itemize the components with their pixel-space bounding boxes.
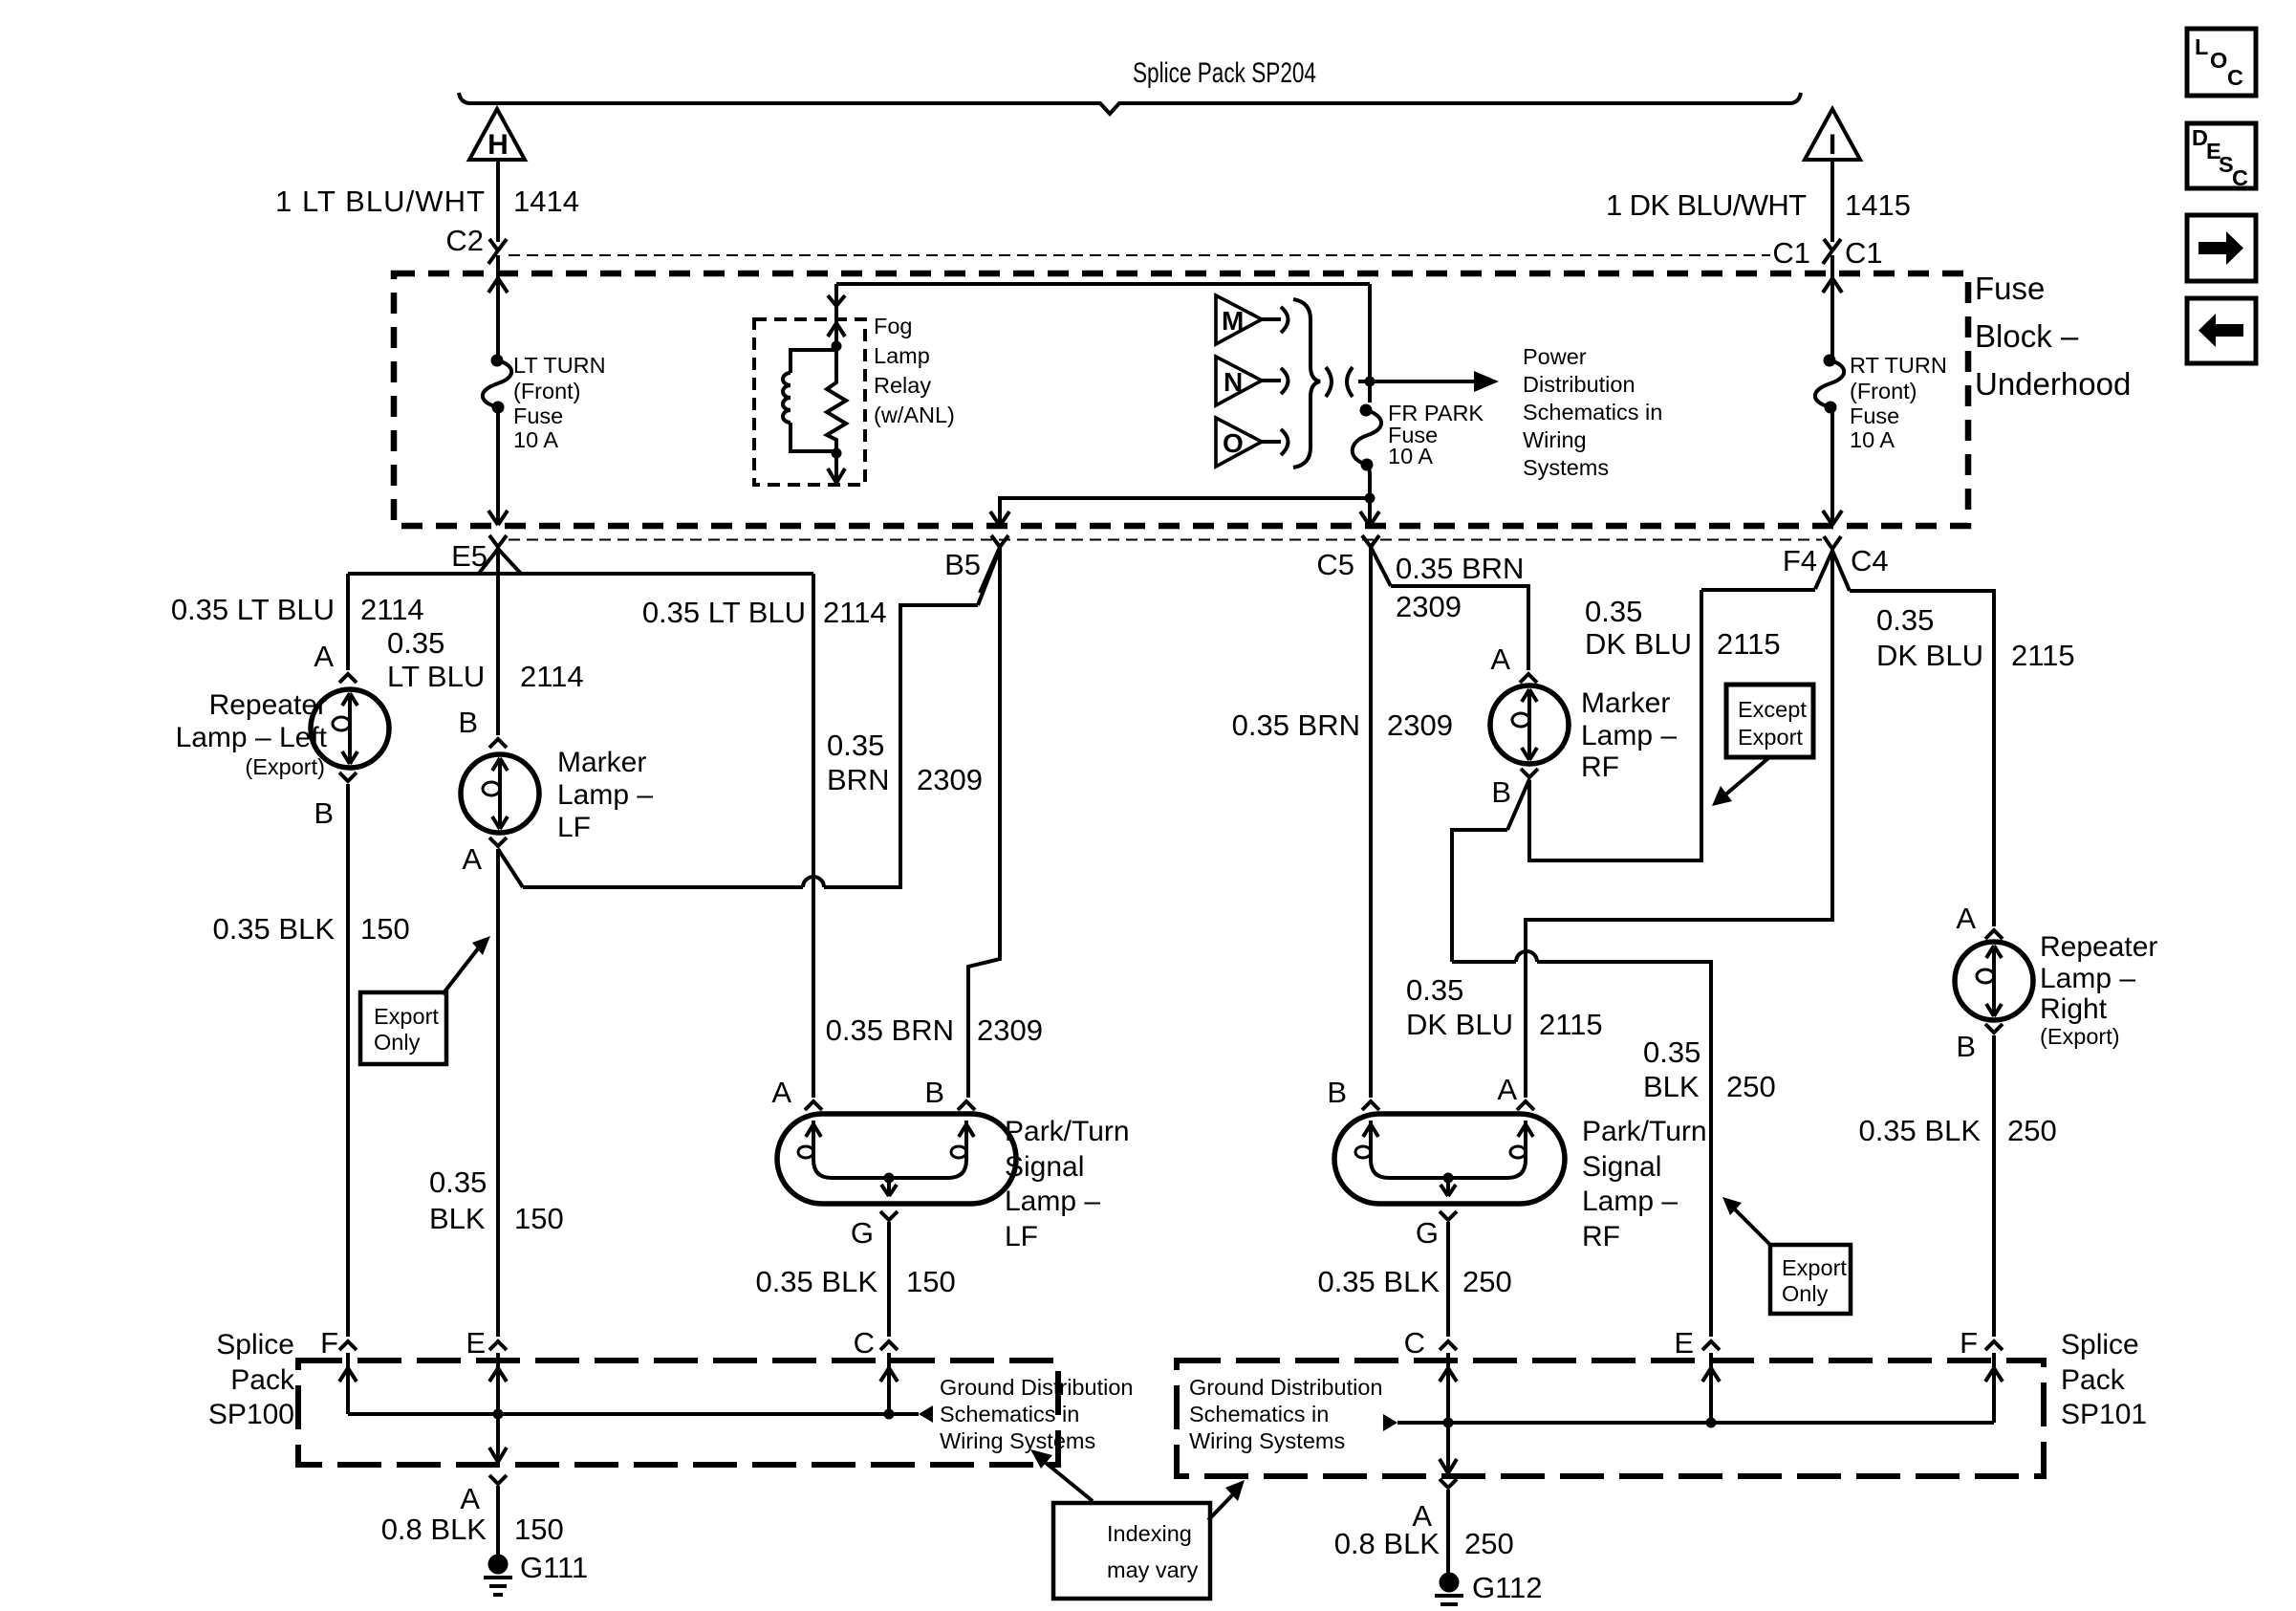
export only box left xyxy=(360,992,446,1064)
wire repeater left B to splice pack F xyxy=(346,784,350,1337)
wire I to C1 xyxy=(1830,160,1834,242)
svg-text:F: F xyxy=(1960,1326,1978,1360)
connector F4 C4 X xyxy=(1824,536,1841,549)
arrow export only right to wire xyxy=(1734,1208,1771,1246)
vertical bus from top wire to FR PARK fuse xyxy=(1368,284,1372,403)
svg-text:Lamp –: Lamp – xyxy=(557,779,653,811)
wire B5 tail xyxy=(980,547,1000,593)
svg-text:10 A: 10 A xyxy=(513,427,558,452)
arrow indexing to SP101 xyxy=(1208,1493,1234,1520)
park/turn LF inner bus xyxy=(832,1176,948,1180)
connector A X G111 lead xyxy=(489,1475,507,1484)
arrow up at fuse block top right xyxy=(1823,278,1842,293)
arrows up inside SP100 xyxy=(339,1368,898,1382)
svg-text:C: C xyxy=(2227,65,2243,90)
svg-text:(Front): (Front) xyxy=(1850,379,1917,403)
svg-text:A: A xyxy=(462,842,482,876)
svg-text:0.35 BRN: 0.35 BRN xyxy=(826,1013,954,1047)
svg-text:O: O xyxy=(1223,428,1244,458)
wire RT TURN fuse down to F4 xyxy=(1830,407,1834,525)
svg-text:B: B xyxy=(1491,775,1511,809)
connector E X splice pack SP100 xyxy=(489,1341,507,1350)
wire to G111 xyxy=(496,1486,500,1558)
except export box xyxy=(1726,685,1813,757)
wire FR PARK fuse down xyxy=(1366,465,1370,525)
svg-text:LF: LF xyxy=(557,812,591,843)
arrow indexing to SP100 xyxy=(1046,1463,1093,1501)
connector F X splice pack SP101 xyxy=(1985,1341,2003,1350)
svg-text:B: B xyxy=(1956,1030,1976,1063)
connector triangle I xyxy=(1805,109,1860,160)
svg-text:Fuse: Fuse xyxy=(1975,271,2045,306)
svg-text:Distribution: Distribution xyxy=(1523,372,1635,397)
terminal G X park/turn RF xyxy=(1440,1211,1457,1220)
svg-text:250: 250 xyxy=(1464,1527,1514,1560)
svg-text:Power: Power xyxy=(1523,344,1587,369)
svg-text:RF: RF xyxy=(1581,751,1619,783)
terminal A X park/turn RF xyxy=(1517,1101,1534,1110)
svg-text:2309: 2309 xyxy=(917,763,983,796)
terminal B X park/turn RF xyxy=(1362,1101,1379,1110)
connector B5 X xyxy=(991,535,1008,547)
svg-text:(Front): (Front) xyxy=(513,379,581,403)
arrow up into relay xyxy=(828,323,845,337)
wire marker LF A branch to B5 net xyxy=(498,549,1000,887)
svg-text:2114: 2114 xyxy=(360,593,424,626)
connector mark at relay feed xyxy=(828,295,845,306)
svg-text:0.35: 0.35 xyxy=(429,1165,487,1199)
svg-text:Underhood: Underhood xyxy=(1975,366,2131,402)
splice pack SP204 bracket xyxy=(459,93,1801,114)
svg-text:2309: 2309 xyxy=(1396,590,1462,623)
wire hop over LT BLU wire xyxy=(803,877,824,887)
svg-text:BLK: BLK xyxy=(429,1202,486,1235)
svg-text:Splice Pack SP204: Splice Pack SP204 xyxy=(1133,57,1316,89)
svg-text:B: B xyxy=(1327,1076,1347,1109)
wire C2 into fuse block xyxy=(496,255,500,360)
svg-text:2114: 2114 xyxy=(520,660,584,693)
svg-text:(Export): (Export) xyxy=(245,754,325,779)
svg-text:0.35: 0.35 xyxy=(1406,973,1463,1007)
svg-text:Fog: Fog xyxy=(874,314,913,338)
connector E5 X xyxy=(489,535,507,547)
svg-text:C1: C1 xyxy=(1845,236,1883,270)
svg-text:Pack: Pack xyxy=(230,1364,295,1396)
svg-text:RT TURN: RT TURN xyxy=(1850,353,1947,378)
arrow down at C5 exit xyxy=(1360,512,1379,526)
svg-text:L: L xyxy=(2195,34,2208,59)
svg-text:Block –: Block – xyxy=(1975,318,2079,354)
park/turn LF ground lead xyxy=(881,1178,897,1196)
wire LT TURN fuse to E5 xyxy=(496,407,500,525)
svg-text:0.8 BLK: 0.8 BLK xyxy=(1334,1527,1440,1560)
svg-text:N: N xyxy=(1224,367,1243,397)
wire E5 horizontal branch xyxy=(348,572,813,576)
svg-text:0.35: 0.35 xyxy=(827,729,884,762)
svg-text:A: A xyxy=(460,1482,480,1515)
repeater lamp right bulb xyxy=(1955,942,2033,1020)
svg-text:Right: Right xyxy=(2040,993,2108,1025)
svg-text:B: B xyxy=(924,1076,944,1109)
svg-text:LT TURN: LT TURN xyxy=(513,353,606,378)
arrow down SP101 exit xyxy=(1440,1459,1457,1473)
svg-text:2114: 2114 xyxy=(823,596,887,629)
svg-text:250: 250 xyxy=(1726,1070,1776,1103)
grouping brace xyxy=(1293,299,1320,468)
svg-text:0.35 BRN: 0.35 BRN xyxy=(1396,552,1524,585)
wire park/turn LF G to splice pack C xyxy=(887,1222,891,1337)
fuse LT TURN (Front) 10A xyxy=(491,355,504,367)
nav box arrow left xyxy=(2187,298,2256,363)
fuse FR PARK 10A xyxy=(1360,404,1373,417)
park/turn signal lamp RF housing xyxy=(1334,1114,1565,1204)
svg-text:Indexing: Indexing xyxy=(1107,1521,1192,1546)
svg-text:BLK: BLK xyxy=(1643,1070,1700,1103)
svg-text:F4: F4 xyxy=(1783,544,1817,577)
svg-text:Relay: Relay xyxy=(874,373,931,398)
svg-text:B: B xyxy=(314,796,334,830)
svg-text:G111: G111 xyxy=(520,1551,588,1584)
svg-text:I: I xyxy=(1829,129,1836,161)
terminal G X park/turn LF xyxy=(880,1211,898,1220)
svg-text:Schematics in: Schematics in xyxy=(1523,400,1662,425)
wire marker RF B export branch xyxy=(1452,779,1711,1337)
svg-text:Wiring: Wiring xyxy=(1523,427,1587,452)
svg-text:Schematics in: Schematics in xyxy=(1189,1402,1329,1426)
svg-text:C: C xyxy=(2232,165,2248,190)
svg-text:Export: Export xyxy=(374,1004,439,1029)
svg-text:Lamp – Left: Lamp – Left xyxy=(176,722,328,753)
connector cavity triangle O xyxy=(1216,418,1262,467)
svg-text:Systems: Systems xyxy=(1523,455,1609,480)
svg-text:C2: C2 xyxy=(445,224,484,257)
repeater lamp left bulb xyxy=(311,689,389,768)
svg-text:Signal: Signal xyxy=(1582,1151,1661,1183)
svg-text:BRN: BRN xyxy=(827,763,889,796)
svg-text:0.35 LT BLU: 0.35 LT BLU xyxy=(642,596,806,629)
arrow except export to wire xyxy=(1723,758,1768,796)
SP101 bus xyxy=(1397,1421,1994,1425)
park/turn RF filament A xyxy=(1507,1121,1533,1178)
svg-text:1 LT BLU/WHT: 1 LT BLU/WHT xyxy=(275,185,485,218)
park/turn LF filament B xyxy=(948,1121,974,1178)
svg-text:150: 150 xyxy=(360,912,410,946)
wire E5 down to marker lamp LF xyxy=(496,547,500,735)
svg-text:250: 250 xyxy=(2007,1114,2057,1147)
svg-text:E: E xyxy=(1674,1326,1694,1360)
svg-text:Repeater: Repeater xyxy=(209,689,327,721)
svg-text:250: 250 xyxy=(1462,1265,1512,1298)
wire C5 branch to marker RF A xyxy=(1371,547,1391,586)
svg-text:Park/Turn: Park/Turn xyxy=(1005,1116,1130,1147)
svg-text:G: G xyxy=(1416,1216,1439,1250)
svg-text:G112: G112 xyxy=(1472,1571,1543,1604)
svg-text:2309: 2309 xyxy=(1387,708,1453,742)
wire to G112 xyxy=(1446,1490,1450,1576)
terminal A X marker LF xyxy=(489,838,507,846)
svg-text:2115: 2115 xyxy=(1717,627,1781,661)
svg-text:C: C xyxy=(1404,1326,1425,1360)
wire marker LF A export ground xyxy=(496,849,500,1337)
terminal A X repeater right xyxy=(1985,930,2003,939)
connector E X splice pack SP101 xyxy=(1702,1341,1720,1350)
thin dashed connector line bottom xyxy=(509,539,1822,541)
terminal B X park/turn LF xyxy=(958,1101,975,1110)
svg-text:O: O xyxy=(2210,48,2227,73)
relay coil branch xyxy=(791,350,836,373)
marker lamp RF bulb xyxy=(1490,686,1569,764)
fog lamp relay dashed box xyxy=(754,319,865,485)
svg-text:C1: C1 xyxy=(1772,236,1810,270)
svg-text:Wiring Systems: Wiring Systems xyxy=(1189,1428,1345,1453)
ground G112 xyxy=(1440,1573,1460,1593)
svg-text:0.35: 0.35 xyxy=(1585,595,1642,628)
SP100 bus xyxy=(348,1412,919,1416)
svg-text:Schematics in: Schematics in xyxy=(940,1402,1079,1426)
junction dot to B5 branch xyxy=(1365,493,1375,504)
fuse RT TURN (Front) 10A xyxy=(1824,355,1836,367)
relay wire out bottom with arrow xyxy=(834,453,838,481)
junction dot at power takeoff xyxy=(1365,377,1375,387)
wire H to C2 xyxy=(496,160,500,242)
svg-text:0.35 BRN: 0.35 BRN xyxy=(1232,708,1360,742)
wire park/turn RF G to splice pack C xyxy=(1446,1222,1450,1337)
connector F X splice pack SP100 xyxy=(339,1341,357,1350)
wire C1 into fuse block xyxy=(1830,255,1834,360)
connector C1 X xyxy=(1823,239,1841,264)
connector C5 X xyxy=(1362,535,1379,547)
svg-text:Pack: Pack xyxy=(2061,1364,2126,1396)
svg-text:0.35 BLK: 0.35 BLK xyxy=(1317,1265,1440,1298)
arrow down at B5 exit xyxy=(990,512,1009,526)
wire repeater right B to splice pack F xyxy=(1992,1035,1996,1337)
svg-text:Signal: Signal xyxy=(1005,1151,1084,1183)
svg-text:0.8 BLK: 0.8 BLK xyxy=(381,1513,487,1546)
svg-text:A: A xyxy=(1490,642,1510,676)
svg-text:150: 150 xyxy=(514,1513,564,1546)
svg-text:DK BLU: DK BLU xyxy=(1876,639,1983,672)
arrow down SP100 exit xyxy=(489,1448,507,1462)
power distribution arrow xyxy=(1370,380,1474,383)
svg-text:SP101: SP101 xyxy=(2061,1399,2147,1430)
wire B5 down to park/turn LF B xyxy=(968,547,1000,1098)
wire left branch down to repeater lamp A xyxy=(346,574,350,670)
nav box DESC xyxy=(2187,123,2256,188)
marker lamp LF bulb xyxy=(461,754,539,833)
svg-text:(Export): (Export) xyxy=(2040,1024,2120,1049)
wire E5 tail xyxy=(478,549,522,575)
svg-text:C4: C4 xyxy=(1851,544,1889,577)
terminal B X repeater right xyxy=(1985,1024,2003,1033)
svg-text:RF: RF xyxy=(1582,1221,1620,1252)
relay resistor xyxy=(827,350,846,451)
svg-text:E: E xyxy=(466,1326,486,1360)
relay junction top xyxy=(832,341,842,352)
splice pack SP101 dashed box xyxy=(1177,1361,2044,1476)
park/turn RF ground lead xyxy=(1440,1178,1456,1196)
svg-text:10 A: 10 A xyxy=(1850,427,1895,452)
terminal A X marker RF xyxy=(1520,674,1537,683)
wire into fog lamp relay xyxy=(834,284,838,346)
wire brace to bus junction xyxy=(1358,380,1370,383)
svg-text:B: B xyxy=(458,706,478,739)
svg-text:Only: Only xyxy=(374,1030,421,1055)
svg-text:0.35 BLK: 0.35 BLK xyxy=(1858,1114,1981,1147)
svg-text:0.35 BLK: 0.35 BLK xyxy=(755,1265,877,1298)
terminal B X marker RF xyxy=(1521,769,1538,777)
connector triangle H xyxy=(469,109,525,160)
svg-text:Ground Distribution: Ground Distribution xyxy=(940,1375,1133,1400)
wire branch to B5 xyxy=(1000,498,1370,525)
svg-text:0.35: 0.35 xyxy=(1876,603,1934,637)
svg-text:SP100: SP100 xyxy=(208,1399,294,1430)
svg-text:150: 150 xyxy=(514,1202,564,1235)
splice pack SP101 wires in xyxy=(1448,1353,1994,1473)
svg-text:2115: 2115 xyxy=(2011,639,2075,672)
svg-text:1414: 1414 xyxy=(513,185,579,218)
svg-text:0.35 LT BLU: 0.35 LT BLU xyxy=(171,593,335,626)
svg-text:Export: Export xyxy=(1782,1255,1847,1280)
wire F4 down to park/turn RF A xyxy=(1526,549,1832,1098)
svg-text:10 A: 10 A xyxy=(1388,444,1433,468)
splice pack SP100 dashed box xyxy=(298,1361,1058,1465)
arrow down at fuse block bottom right xyxy=(1823,511,1842,525)
svg-text:LT BLU: LT BLU xyxy=(387,660,485,693)
small brace pair xyxy=(1326,367,1332,397)
svg-text:150: 150 xyxy=(906,1265,956,1298)
svg-text:Park/Turn: Park/Turn xyxy=(1582,1116,1707,1147)
wire marker RF B to F4 loop xyxy=(1529,551,1832,860)
svg-text:0.35 BLK: 0.35 BLK xyxy=(212,912,335,946)
wire C4 branch to repeater right xyxy=(1832,551,1850,591)
svg-text:may vary: may vary xyxy=(1107,1557,1199,1582)
svg-text:Fuse: Fuse xyxy=(1850,403,1899,428)
svg-text:Only: Only xyxy=(1782,1281,1829,1306)
svg-text:F: F xyxy=(320,1326,338,1360)
ground G111 xyxy=(488,1555,509,1575)
park/turn LF filament A xyxy=(806,1121,832,1178)
terminal B X marker LF xyxy=(489,739,507,748)
export only box right xyxy=(1770,1245,1851,1314)
svg-text:1415: 1415 xyxy=(1845,188,1911,222)
svg-text:M: M xyxy=(1222,306,1244,336)
svg-text:Export: Export xyxy=(1738,725,1803,750)
svg-text:DK BLU: DK BLU xyxy=(1406,1008,1513,1041)
svg-text:0.35: 0.35 xyxy=(387,626,444,660)
arrow export only to wire xyxy=(443,947,479,994)
connector cavity triangle M xyxy=(1216,295,1262,344)
svg-text:Except: Except xyxy=(1738,697,1807,722)
nav box LOC xyxy=(2187,29,2256,96)
svg-text:G: G xyxy=(851,1216,874,1250)
thin dashed connector line top xyxy=(509,254,1770,256)
svg-text:2115: 2115 xyxy=(1539,1008,1603,1041)
terminal B X repeater left xyxy=(339,773,357,781)
svg-text:Fuse: Fuse xyxy=(513,403,563,428)
svg-text:C: C xyxy=(854,1326,875,1360)
svg-text:2309: 2309 xyxy=(977,1013,1043,1047)
svg-text:0.35: 0.35 xyxy=(1643,1035,1700,1069)
nav box arrow right xyxy=(2187,215,2256,281)
svg-text:Lamp –: Lamp – xyxy=(2040,963,2135,994)
arrows up inside SP101 xyxy=(1440,1368,2003,1382)
svg-text:A: A xyxy=(1956,902,1976,935)
svg-text:H: H xyxy=(487,129,509,161)
svg-text:Marker: Marker xyxy=(557,747,646,778)
svg-text:1 DK BLU/WHT: 1 DK BLU/WHT xyxy=(1606,188,1807,222)
connector C2 X xyxy=(488,239,507,264)
relay junction bottom xyxy=(832,448,842,459)
indexing may vary box xyxy=(1053,1503,1210,1599)
wire LT BLU down to park/turn LF A xyxy=(812,574,815,1098)
connector cavity triangle N xyxy=(1216,357,1262,405)
park/turn RF inner bus xyxy=(1389,1176,1507,1180)
svg-text:LF: LF xyxy=(1005,1221,1038,1252)
svg-text:(w/ANL): (w/ANL) xyxy=(874,403,955,427)
svg-text:B5: B5 xyxy=(944,548,981,581)
svg-text:Marker: Marker xyxy=(1581,687,1670,719)
svg-text:A: A xyxy=(771,1076,791,1109)
svg-text:Wiring Systems: Wiring Systems xyxy=(940,1428,1095,1453)
svg-text:Splice: Splice xyxy=(2061,1329,2139,1361)
svg-text:Lamp: Lamp xyxy=(874,343,930,368)
connector A X G112 lead xyxy=(1440,1479,1457,1488)
svg-text:A: A xyxy=(314,640,334,673)
wire hop over DK BLU wire xyxy=(1516,951,1537,962)
connector C X splice pack SP101 xyxy=(1440,1341,1457,1350)
svg-text:Repeater: Repeater xyxy=(2040,931,2157,963)
svg-text:Splice: Splice xyxy=(216,1329,294,1361)
fuse block underhood dashed box xyxy=(394,273,1968,526)
park/turn signal lamp LF housing xyxy=(777,1114,1016,1204)
terminal A X repeater left xyxy=(339,674,357,683)
fuse block top bus wire xyxy=(836,282,1370,286)
svg-text:Lamp –: Lamp – xyxy=(1582,1186,1678,1217)
connector C X splice pack SP100 xyxy=(880,1341,898,1350)
svg-text:Ground Distribution: Ground Distribution xyxy=(1189,1375,1382,1400)
svg-text:Lamp –: Lamp – xyxy=(1581,720,1677,751)
svg-text:Lamp –: Lamp – xyxy=(1005,1186,1100,1217)
terminal A X park/turn LF xyxy=(805,1101,822,1110)
arrow down at fuse block bottom left xyxy=(488,511,508,525)
svg-text:DK BLU: DK BLU xyxy=(1585,627,1692,661)
park/turn RF filament B xyxy=(1363,1121,1389,1178)
svg-text:C5: C5 xyxy=(1316,548,1354,581)
svg-text:A: A xyxy=(1497,1073,1517,1106)
splice pack SP100 wires in xyxy=(348,1353,889,1462)
wire C5 down to park/turn RF B xyxy=(1369,547,1373,1098)
arrow up at fuse block top left xyxy=(488,278,508,293)
